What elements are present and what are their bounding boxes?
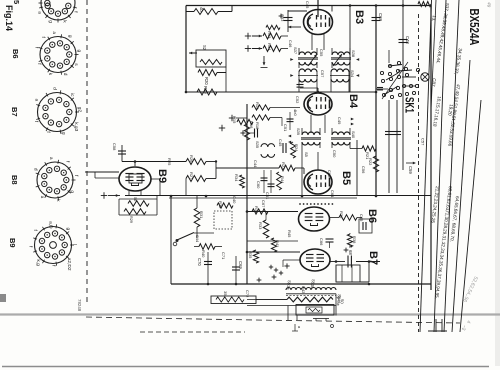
svg-text:R25: R25 (167, 158, 172, 166)
svg-text:R24: R24 (294, 144, 299, 152)
capacitor C45 (282, 143, 284, 153)
dashed bottom line (86, 317, 460, 323)
mains resistor box (211, 296, 256, 304)
capacitor C61 (270, 170, 272, 193)
socket B7 (38, 93, 77, 132)
resistor R19a (252, 105, 270, 110)
resistor R24 (291, 142, 296, 158)
svg-text:BX524A: BX524A (467, 9, 482, 46)
tube B4 (304, 93, 332, 115)
svg-text:S44: S44 (195, 235, 200, 243)
svg-text:B9: B9 (156, 169, 168, 183)
svg-text:C52: C52 (295, 96, 300, 104)
arrow down antenna (263, 56, 265, 65)
svg-text:g: g (61, 132, 66, 135)
svg-text:R40: R40 (201, 250, 206, 258)
svg-text:a: a (34, 99, 39, 102)
arrow feed 2 (252, 48, 262, 50)
svg-text:C69: C69 (238, 261, 243, 269)
capacitor C69 (235, 256, 237, 284)
svg-text:R42: R42 (301, 286, 306, 294)
wire speaker legs (287, 306, 289, 321)
svg-text:R14: R14 (267, 43, 272, 51)
left edge tab (0, 294, 6, 302)
svg-text:56: 56 (133, 197, 137, 201)
svg-text:R19: R19 (203, 86, 208, 94)
plus R16 (229, 117, 235, 119)
svg-text:5: 5 (12, 0, 21, 4)
svg-text:B9: B9 (8, 238, 17, 248)
tube B4 top cap (317, 88, 319, 93)
resistor R14 (263, 46, 281, 52)
svg-text:R44: R44 (280, 176, 285, 184)
svg-text:S34: S34 (350, 70, 355, 78)
svg-text:78248: 78248 (77, 299, 82, 312)
resistor R28 (128, 201, 149, 207)
resistor R35 (253, 250, 258, 263)
svg-text:R36: R36 (339, 211, 344, 219)
wire S40 feet (331, 142, 333, 148)
svg-text:C57: C57 (421, 138, 426, 146)
svg-text:R23: R23 (281, 162, 286, 170)
plus cathode (284, 265, 289, 267)
wire mid bus (125, 195, 431, 197)
resistor R33 (263, 220, 269, 238)
resistor in S2 box (200, 60, 222, 65)
core arrows IF1 (290, 58, 293, 61)
wire right border (430, 6, 432, 291)
svg-text:C71: C71 (221, 252, 226, 260)
dashed column separator (86, 0, 88, 302)
resistor R34 (240, 175, 245, 188)
capacitor C63 (247, 132, 254, 134)
plus feed 1 (245, 35, 251, 37)
small circle bottom (331, 325, 334, 328)
wire B6 grid (247, 211, 298, 213)
socket B6 (40, 37, 76, 73)
switch lever SK2 (177, 233, 194, 241)
tube B6 (299, 207, 330, 231)
dial lamp (421, 73, 429, 81)
dashed bus C59 (418, 14, 420, 332)
wire SK1 stem b (396, 100, 398, 193)
svg-text:R19: R19 (255, 102, 260, 110)
trimmer arrow 1 (308, 54, 317, 66)
resistor R44 (277, 172, 282, 190)
tube B9 (119, 167, 151, 191)
svg-text:a: a (39, 196, 44, 199)
arrow S2 (189, 52, 197, 54)
capacitor C70 (207, 252, 209, 284)
plus group (269, 266, 273, 268)
svg-text:g2: g2 (76, 107, 82, 113)
wire top stubs (317, 0, 319, 17)
svg-text:C58: C58 (112, 143, 117, 151)
svg-text:a: a (37, 11, 42, 14)
svg-text:C55: C55 (319, 49, 324, 57)
svg-text:k,g: k,g (35, 259, 41, 266)
capacitor C on stem a (385, 131, 393, 133)
svg-text:R45: R45 (287, 230, 292, 238)
table line 1b (431, 0, 436, 110)
wire B9 top cap (134, 162, 136, 167)
wire B3 bottom bus (186, 91, 376, 93)
tube B7 (300, 249, 330, 271)
capacitor C60 (263, 170, 265, 193)
wire S39 feet (301, 142, 303, 196)
svg-text:68: 68 (348, 250, 353, 255)
wire mid box right (356, 140, 358, 196)
svg-text:C51: C51 (283, 124, 288, 132)
svg-text:C66: C66 (319, 238, 324, 246)
svg-text:S38: S38 (351, 50, 356, 58)
wire R16 top (236, 117, 247, 119)
svg-text:a2,D2: a2,D2 (66, 258, 72, 271)
plus C63 (240, 132, 245, 134)
svg-text:R22: R22 (368, 158, 373, 166)
svg-text:S37: S37 (293, 47, 298, 55)
svg-text:l: l (71, 244, 77, 245)
core arrows (351, 118, 354, 121)
svg-text:R34: R34 (234, 174, 239, 182)
wire left border (185, 6, 187, 93)
table line 1 (420, 0, 432, 332)
capacitor C65 box (359, 219, 372, 233)
svg-text:13,: 13, (431, 15, 437, 22)
svg-text:C56: C56 (361, 166, 366, 174)
svg-text:C40: C40 (232, 196, 237, 204)
dashed bottom line 2 (140, 331, 245, 333)
IF coil S33 (299, 69, 317, 72)
resistor R36 (330, 217, 339, 219)
svg-text:a,D: a,D (48, 221, 54, 229)
trimmer arrow 2 (333, 54, 342, 66)
socket B5 (top, partial) (41, 0, 75, 20)
wire B5 grid (317, 152, 319, 170)
resistor R20 (198, 70, 217, 76)
IF transformer S38 secondary (332, 52, 350, 55)
switch SK1 levers (389, 65, 402, 67)
table line 5 (460, 100, 481, 332)
wire B7 grid (247, 251, 300, 253)
wire B3 stems (311, 34, 313, 50)
voice coil box (296, 305, 334, 316)
wire B5 grid line (216, 167, 279, 169)
bottom page edge (2, 366, 489, 368)
svg-text:C59: C59 (408, 166, 413, 174)
svg-text:g: g (76, 50, 81, 53)
svg-text:C44: C44 (253, 160, 258, 168)
svg-text:C57: C57 (320, 70, 325, 78)
svg-text:g: g (47, 20, 52, 23)
svg-text:C65: C65 (359, 214, 364, 222)
resistor R41 (271, 238, 276, 252)
core line (286, 293, 336, 295)
resistor R12 (266, 25, 280, 29)
resistor R19 (197, 89, 217, 95)
svg-text:S40: S40 (351, 131, 356, 139)
capacitor C59 arrow (406, 162, 415, 164)
wire B9 left (85, 171, 119, 173)
svg-text:Fig.14: Fig.14 (4, 5, 14, 31)
wire mid join (247, 240, 298, 242)
svg-text:ic: ic (69, 93, 75, 97)
svg-text:S5: S5 (304, 152, 309, 158)
wire box B7 (336, 265, 360, 282)
svg-text:d: d (51, 87, 57, 90)
table foot tick (428, 330, 447, 332)
svg-text:B6: B6 (11, 49, 20, 59)
svg-text:B5: B5 (340, 171, 352, 185)
box S2 (196, 50, 226, 67)
svg-text:R38: R38 (352, 236, 357, 244)
svg-text:R33: R33 (258, 222, 263, 230)
capacitor C48 (399, 39, 408, 41)
plus out a (257, 279, 262, 281)
svg-text:C50: C50 (332, 150, 337, 158)
wire bottom bus (171, 283, 431, 285)
resistor R26 (186, 159, 206, 165)
capacitor C47 (326, 238, 334, 240)
resistor R23 (279, 165, 295, 171)
resistor R21 (350, 148, 362, 150)
wire left return (170, 196, 172, 284)
svg-text:C72: C72 (245, 290, 250, 298)
svg-text:a: a (51, 31, 56, 34)
plus feed 2 (245, 48, 251, 50)
resistor R32 (217, 203, 233, 208)
svg-text:S39: S39 (296, 128, 301, 136)
svg-text:R13: R13 (267, 31, 272, 39)
plus feed mid (101, 195, 107, 197)
svg-text:S2: S2 (202, 45, 207, 51)
resistor R37 (252, 209, 268, 214)
table line 4 (452, 60, 470, 332)
wire B9 stems (128, 191, 130, 196)
svg-text:C68: C68 (378, 13, 383, 21)
wire B3 plate stub (331, 6, 333, 12)
capacitor C53 (287, 10, 289, 32)
svg-text:g: g (65, 227, 70, 230)
svg-text:C49: C49 (337, 117, 342, 125)
svg-text:g: g (67, 35, 72, 38)
switch SK1 contacts (380, 71, 383, 74)
capacitor C58 (121, 145, 123, 162)
svg-text:a: a (48, 157, 53, 160)
resistor R22 (373, 156, 378, 172)
resistor R38 (349, 233, 351, 234)
socket B9 (35, 227, 72, 264)
table line 3 (444, 0, 459, 332)
wire grid B3 (288, 10, 307, 12)
plus C53 (279, 15, 284, 17)
socket B8 (37, 162, 73, 198)
wire B7 plate (330, 261, 345, 263)
resistor R13 (263, 33, 281, 39)
wire SK bus vertical (402, 0, 404, 170)
junction AVC (215, 160, 217, 162)
resistor R27 (186, 176, 206, 182)
svg-text:R15: R15 (232, 116, 237, 124)
svg-text:C62: C62 (327, 170, 332, 178)
junction dots (185, 91, 188, 94)
svg-text:C48: C48 (405, 36, 410, 44)
svg-text:R26: R26 (189, 155, 194, 163)
secondary winding S49 (287, 297, 333, 302)
tube B5 (304, 170, 332, 194)
resistor top right corner (418, 2, 431, 7)
svg-text:d: d (33, 168, 39, 171)
svg-text:R20: R20 (204, 77, 209, 85)
wire R33 column (265, 213, 267, 220)
IF transformer S40 (332, 132, 350, 135)
svg-text:k,g3: k,g3 (73, 122, 79, 131)
svg-text:B7: B7 (10, 107, 19, 117)
svg-text:35: 35 (223, 291, 228, 296)
svg-text:B3: B3 (353, 10, 365, 24)
wire SK1 feeders (388, 50, 390, 63)
resistor R16 (246, 118, 248, 124)
tube B3 (304, 10, 333, 35)
resistor R40 (194, 246, 199, 248)
gray fold line (0, 313, 500, 315)
IF transformer S37 primary (299, 52, 317, 55)
heater dots (299, 203, 301, 205)
resistor R28 network (119, 198, 157, 200)
svg-text:4b: 4b (199, 7, 204, 12)
svg-text:C45: C45 (305, 1, 310, 9)
capacitor C68 on HT bus (372, 17, 381, 19)
bottom bars (435, 319, 437, 332)
primary winding S51 (286, 288, 336, 291)
svg-text:B8: B8 (10, 175, 19, 185)
dotted box (214, 211, 232, 229)
capacitor C on stem b (393, 131, 401, 133)
wire mid bus upper (169, 197, 357, 199)
resistor R18 (252, 115, 270, 120)
svg-text:R31: R31 (199, 211, 204, 219)
svg-text:C60: C60 (256, 181, 261, 189)
resistor R10 (186, 11, 194, 13)
wire B3 plate riser (349, 6, 351, 93)
svg-text:R37: R37 (254, 206, 259, 214)
wire mains (256, 299, 287, 301)
wire B9 right (151, 178, 160, 180)
svg-text:C67: C67 (261, 200, 266, 208)
wire SK1 stem a (388, 100, 390, 193)
IF transformer S39 (302, 132, 320, 135)
svg-text:C46: C46 (288, 40, 293, 48)
resistor R31 (196, 196, 198, 208)
resistor R29 (124, 209, 146, 215)
svg-text:B4: B4 (347, 94, 359, 109)
IF coil S34 (331, 69, 349, 72)
coil S35 (261, 144, 275, 147)
svg-text:S35: S35 (255, 141, 260, 149)
svg-text:C70: C70 (197, 258, 202, 266)
resistor R15 (237, 119, 253, 124)
svg-text:C: C (348, 245, 353, 248)
wire out left (247, 299, 287, 301)
arrow feed 1 (252, 35, 262, 37)
svg-text:R32: R32 (218, 201, 223, 209)
plus out b (272, 276, 277, 278)
wire AVC line (122, 161, 186, 163)
svg-text:SK1: SK1 (403, 97, 415, 113)
capacitor C68b (347, 256, 349, 268)
wire B7 left (283, 259, 300, 261)
svg-text:R29: R29 (129, 216, 133, 223)
svg-text:4b0: 4b0 (293, 109, 298, 116)
svg-text:d: d (62, 73, 68, 76)
wire top bus (186, 5, 431, 7)
svg-text:C64: C64 (330, 190, 335, 198)
speaker symbol (313, 318, 329, 320)
wire B4 stems (310, 115, 312, 133)
svg-text:C45: C45 (278, 139, 283, 147)
svg-text:g: g (69, 190, 74, 193)
wire B7 drop (368, 262, 370, 283)
antenna mark (294, 324, 296, 331)
wire HT bus vertical (375, 6, 377, 197)
table line 2 (434, 0, 446, 332)
wire left stage bus (246, 104, 248, 284)
svg-text:R27: R27 (189, 172, 194, 180)
capacitor C51 (289, 112, 291, 130)
svg-text:C61: C61 (265, 192, 270, 200)
